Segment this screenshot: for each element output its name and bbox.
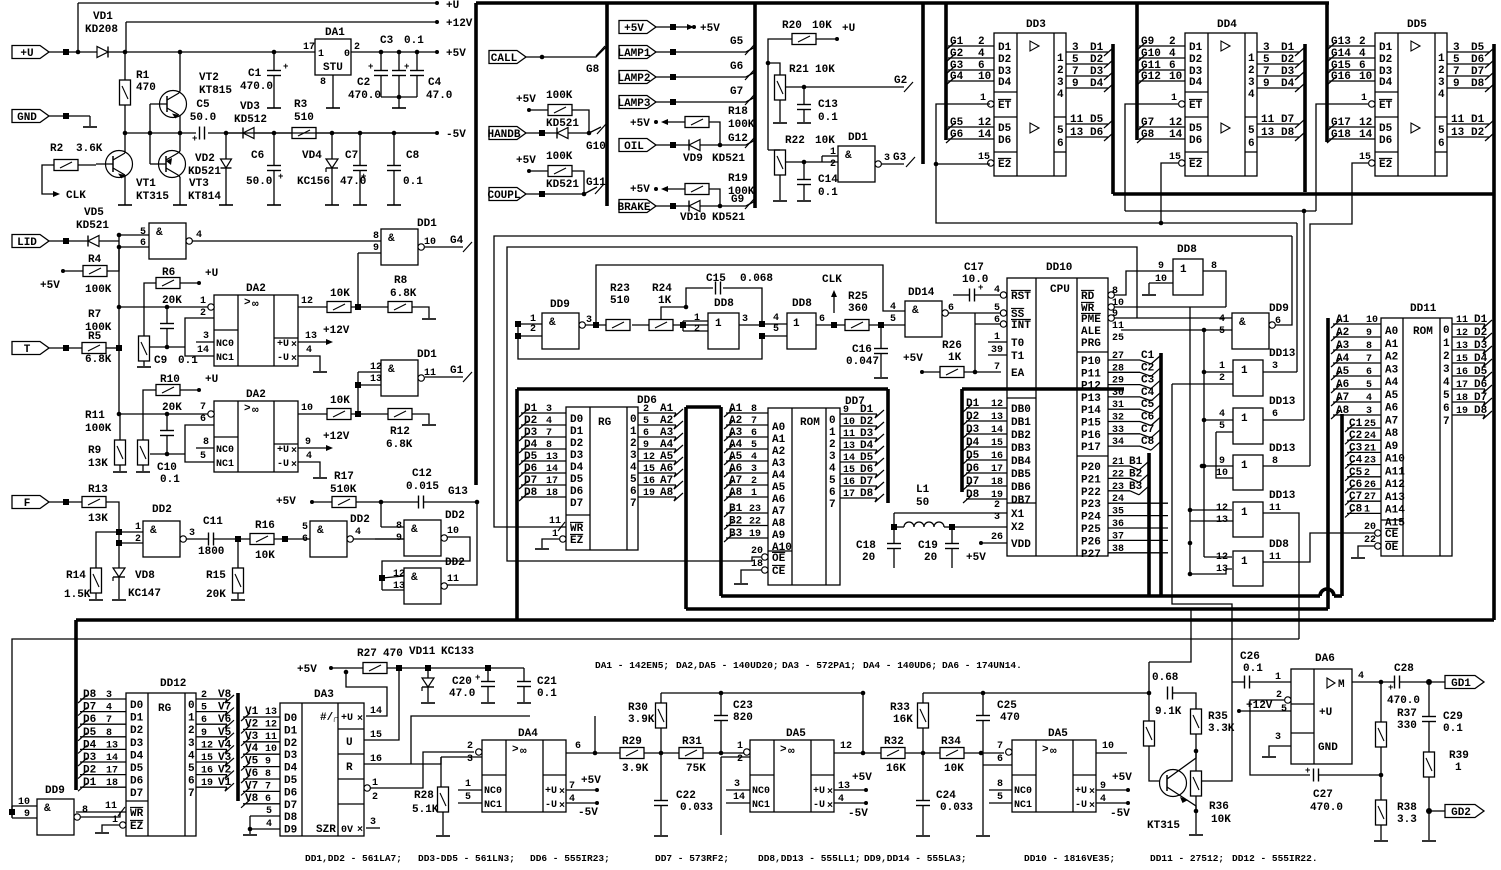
- wire RD to DD8.3: [1114, 271, 1173, 295]
- op-amp DA5.2: [1012, 740, 1096, 812]
- svg-text:5: 5: [773, 324, 779, 335]
- wire: [179, 52, 181, 91]
- resistor R29: [620, 748, 644, 759]
- bus V: [236, 693, 240, 801]
- wire: [351, 306, 388, 308]
- svg-text:D6: D6: [860, 464, 873, 476]
- svg-text:3: 3: [994, 512, 1000, 523]
- svg-text:1: 1: [318, 49, 324, 60]
- svg-text:6: 6: [1272, 409, 1278, 420]
- svg-text:D4: D4: [1474, 353, 1488, 365]
- svg-text:SZR: SZR: [316, 824, 336, 836]
- svg-text:GD1: GD1: [1451, 678, 1471, 690]
- svg-text:4: 4: [829, 463, 836, 475]
- wire: [526, 193, 584, 195]
- wire: [425, 246, 463, 248]
- svg-text:A4: A4: [660, 439, 674, 451]
- wire pin2: [1172, 383, 1233, 385]
- svg-text:×: ×: [827, 801, 833, 812]
- wire: [1319, 774, 1381, 776]
- svg-text:9.1K: 9.1K: [1155, 706, 1182, 718]
- svg-text:2: 2: [1359, 36, 1366, 48]
- svg-text:R7: R7: [88, 309, 101, 321]
- svg-text:1: 1: [829, 427, 836, 439]
- svg-text:R34: R34: [941, 736, 961, 748]
- svg-text:10: 10: [265, 744, 277, 755]
- svg-text:GND: GND: [17, 112, 37, 124]
- wire: [644, 752, 679, 754]
- gate DD13.3: [1233, 455, 1263, 490]
- wire: [834, 802, 866, 804]
- svg-text:G17: G17: [1331, 117, 1351, 129]
- wire ALE chain: [1121, 329, 1232, 331]
- gate DD1.4: [838, 146, 875, 182]
- svg-text:∩: ∩: [333, 715, 339, 726]
- svg-text:D2: D2: [524, 415, 537, 427]
- svg-text:0.033: 0.033: [940, 802, 973, 814]
- wire: [1232, 681, 1244, 683]
- svg-text:D3: D3: [1474, 340, 1488, 352]
- svg-text:7: 7: [1263, 66, 1270, 78]
- svg-text:11: 11: [1261, 114, 1275, 126]
- svg-text:C3: C3: [1141, 375, 1155, 387]
- svg-text:26: 26: [991, 532, 1003, 543]
- output D3 pin 7: [1257, 75, 1299, 77]
- svg-text:5: 5: [1438, 125, 1445, 137]
- wire: [49, 51, 97, 53]
- svg-text:1: 1: [1438, 53, 1445, 65]
- wire: [568, 132, 589, 134]
- resistor R7: [139, 336, 150, 361]
- svg-text:3: 3: [1438, 77, 1445, 89]
- svg-text:10K: 10K: [330, 288, 350, 300]
- wire DA2.2 pin7: [119, 413, 208, 415]
- svg-text:R1: R1: [136, 70, 150, 82]
- svg-text:+5V: +5V: [446, 48, 466, 60]
- wire: [572, 171, 584, 194]
- dac DA3: [280, 703, 364, 836]
- svg-text:11: 11: [447, 574, 459, 585]
- svg-text:A8: A8: [729, 487, 743, 499]
- wire: [660, 753, 662, 800]
- resistor R15: [233, 568, 244, 593]
- svg-text:G13: G13: [448, 486, 468, 498]
- svg-text:13K: 13K: [88, 513, 108, 525]
- svg-text:14: 14: [978, 129, 992, 141]
- wire: [1195, 796, 1197, 834]
- output D1 pin 3: [1257, 51, 1299, 53]
- wire: [63, 270, 83, 272]
- svg-text:DD8: DD8: [1177, 244, 1197, 256]
- svg-text:0.1: 0.1: [818, 187, 838, 199]
- svg-text:P14: P14: [1081, 405, 1101, 417]
- output A6: [638, 472, 676, 474]
- input G16 pin 10: [1329, 80, 1375, 82]
- svg-text:+: +: [475, 673, 480, 683]
- svg-text:+5V: +5V: [852, 772, 872, 784]
- wire: [125, 22, 127, 52]
- svg-text:G10: G10: [1141, 48, 1161, 60]
- wire DD9.5 out: [81, 812, 120, 817]
- svg-text:C5: C5: [196, 99, 210, 111]
- wire: [412, 307, 429, 318]
- input C8: [1347, 512, 1381, 514]
- wire: [144, 283, 156, 336]
- svg-text:∞: ∞: [520, 746, 527, 758]
- wire: [107, 247, 119, 271]
- svg-text:6: 6: [200, 414, 206, 425]
- input A1: [1333, 323, 1381, 325]
- svg-text:D7: D7: [284, 800, 297, 812]
- wire: [1149, 282, 1173, 284]
- svg-text:6: 6: [575, 741, 581, 752]
- svg-text:DA2: DA2: [246, 283, 266, 295]
- svg-text:>: >: [512, 744, 519, 756]
- svg-text:100K: 100K: [546, 90, 573, 102]
- resistor R14: [91, 568, 102, 593]
- svg-text:DD1: DD1: [417, 218, 437, 230]
- wire: [762, 323, 787, 325]
- svg-text:D3: D3: [1090, 66, 1104, 78]
- input G4 pin 10: [948, 80, 994, 82]
- input G11 pin 6: [1139, 69, 1185, 71]
- svg-text:PME: PME: [1081, 314, 1101, 326]
- svg-text:11: 11: [1070, 114, 1084, 126]
- svg-text:1: 1: [1361, 93, 1367, 104]
- svg-text:&: &: [549, 317, 556, 329]
- wire: [119, 531, 143, 533]
- svg-text:1: 1: [1455, 762, 1462, 774]
- wire: [656, 205, 689, 207]
- input G3 pin 6: [948, 69, 994, 71]
- output D3: [1452, 349, 1485, 351]
- capacitor C23: [713, 715, 715, 717]
- svg-text:13: 13: [106, 740, 118, 751]
- svg-text:R12: R12: [390, 426, 410, 438]
- svg-text:1.5K: 1.5K: [64, 589, 91, 601]
- svg-text:A2: A2: [660, 415, 673, 427]
- svg-text:DA6 - 174UN14.: DA6 - 174UN14.: [942, 660, 1022, 671]
- svg-text:LID: LID: [17, 237, 37, 249]
- connector flag T: [12, 342, 49, 355]
- connector flag BRAKE: [619, 200, 656, 213]
- counter DD8.2: [787, 313, 816, 349]
- wire: [78, 164, 96, 166]
- svg-text:ET: ET: [1379, 100, 1393, 112]
- svg-text:14: 14: [1359, 129, 1373, 141]
- capacitor C7: [352, 165, 354, 167]
- svg-text:R30: R30: [628, 702, 648, 714]
- wire: [1190, 520, 1233, 522]
- svg-text:CLK: CLK: [822, 274, 842, 286]
- svg-text:3.6K: 3.6K: [76, 143, 103, 155]
- svg-text:14: 14: [733, 792, 745, 803]
- svg-text:G6: G6: [730, 61, 743, 73]
- svg-text:A5: A5: [772, 482, 786, 494]
- svg-text:D5: D5: [524, 451, 538, 463]
- ground: [1358, 546, 1374, 557]
- wire: [1204, 556, 1232, 558]
- svg-text:470.0: 470.0: [240, 81, 273, 93]
- wire: [143, 390, 156, 440]
- bus addr DD6 out side: [684, 407, 688, 609]
- svg-text:C21: C21: [537, 676, 557, 688]
- svg-text:+5V: +5V: [276, 496, 296, 508]
- svg-text:C4: C4: [1141, 387, 1155, 399]
- svg-text:+12V: +12V: [1246, 700, 1273, 712]
- bus C right: [1340, 414, 1344, 596]
- diode VD1: [97, 47, 108, 58]
- input A7: [726, 484, 768, 486]
- svg-text:20K: 20K: [162, 295, 182, 307]
- wire ET net to DD13.2: [1303, 211, 1305, 420]
- resistor R9: [138, 440, 149, 465]
- svg-text:EA: EA: [1011, 368, 1025, 380]
- input A5: [1333, 375, 1381, 377]
- wire: [656, 51, 746, 53]
- svg-text:C2: C2: [357, 77, 370, 89]
- svg-text:10: 10: [1102, 741, 1114, 752]
- svg-text:#/: #/: [320, 712, 334, 724]
- svg-text:X1: X1: [1011, 509, 1025, 521]
- svg-text:D2: D2: [130, 725, 143, 737]
- svg-text:KD521: KD521: [76, 220, 109, 232]
- gate DD9.5: [37, 799, 74, 835]
- input D1: [521, 412, 566, 414]
- svg-text:ALE: ALE: [1081, 326, 1101, 338]
- svg-text:3: 3: [467, 754, 473, 765]
- svg-text:3: 3: [370, 817, 376, 828]
- wire ET net y211: [1125, 210, 1316, 212]
- svg-text:DD4: DD4: [1217, 19, 1237, 31]
- svg-text:×: ×: [291, 446, 297, 457]
- output D3: [840, 437, 877, 439]
- wire: [226, 132, 243, 134]
- svg-text:R8: R8: [394, 275, 408, 287]
- connector flag +5V: [619, 21, 656, 34]
- svg-text:C13: C13: [818, 99, 838, 111]
- svg-text:G1: G1: [950, 36, 964, 48]
- svg-text:12: 12: [840, 741, 852, 752]
- bus output DD5/D main: [1492, 44, 1496, 620]
- wire: [720, 757, 722, 835]
- svg-text:B1: B1: [1129, 456, 1143, 468]
- output D2 pin 13: [1447, 136, 1489, 138]
- svg-text:+U: +U: [205, 374, 218, 386]
- capacitor C20: [480, 681, 482, 683]
- svg-text:C23: C23: [733, 700, 753, 712]
- wire: [572, 110, 589, 133]
- svg-text:13: 13: [265, 707, 277, 718]
- svg-text:V2: V2: [218, 765, 231, 777]
- wire: [740, 752, 744, 754]
- diode VD9: [689, 140, 700, 151]
- svg-text:14: 14: [1169, 129, 1183, 141]
- svg-text:A5: A5: [1385, 390, 1399, 402]
- wire P13: [1108, 396, 1140, 398]
- svg-text:3: 3: [630, 450, 637, 462]
- ground: [773, 122, 787, 124]
- svg-text:12: 12: [1456, 328, 1468, 339]
- input G1 pin 2: [948, 45, 994, 47]
- svg-text:DD1: DD1: [417, 349, 437, 361]
- svg-text:D5: D5: [966, 450, 980, 462]
- svg-text:5: 5: [1281, 704, 1287, 715]
- wire: [1269, 746, 1291, 756]
- svg-text:A2: A2: [772, 446, 785, 458]
- gate DD9.2: [1232, 313, 1269, 349]
- svg-text:3: 3: [189, 528, 195, 539]
- capacitor C27: [1313, 769, 1315, 782]
- svg-text:R29: R29: [622, 736, 642, 748]
- svg-text:M: M: [1338, 679, 1345, 691]
- svg-text:4: 4: [546, 416, 552, 427]
- svg-text:6: 6: [188, 776, 195, 788]
- svg-text:16: 16: [1456, 367, 1468, 378]
- svg-text:24: 24: [1364, 431, 1376, 442]
- output V2: [196, 774, 227, 776]
- svg-text:510: 510: [294, 112, 314, 124]
- svg-text:A7: A7: [772, 506, 785, 518]
- wire DD2.2 out: [353, 538, 404, 540]
- capacitor C10: [159, 430, 161, 432]
- wire: [166, 307, 168, 323]
- svg-text:R38: R38: [1397, 802, 1417, 814]
- capacitor C25: [975, 715, 977, 717]
- svg-text:5.1K: 5.1K: [412, 804, 439, 816]
- ground: [89, 599, 103, 601]
- svg-text:G12: G12: [1141, 71, 1161, 83]
- svg-text:DD2: DD2: [350, 514, 370, 526]
- ground: [83, 126, 97, 128]
- input D4: [80, 748, 126, 750]
- svg-text:20: 20: [1364, 522, 1376, 533]
- svg-text:+U: +U: [842, 23, 855, 35]
- svg-text:7: 7: [546, 428, 552, 439]
- svg-text:4: 4: [196, 230, 202, 241]
- svg-text:+12V: +12V: [323, 325, 350, 337]
- ground: [243, 834, 257, 836]
- svg-text:GND: GND: [1318, 742, 1338, 754]
- svg-text:NC1: NC1: [216, 353, 234, 364]
- svg-text:D1: D1: [570, 426, 584, 438]
- amplifier DA6: [1291, 669, 1352, 764]
- wire: [768, 63, 780, 75]
- svg-text:11: 11: [265, 732, 277, 743]
- connector flag GD1: [1445, 676, 1484, 689]
- wire: [106, 347, 119, 349]
- wire: [682, 321, 684, 331]
- svg-text:C20: C20: [452, 676, 472, 688]
- svg-text:4: 4: [106, 703, 112, 714]
- svg-text:KT814: KT814: [188, 191, 221, 203]
- svg-text:1K: 1K: [948, 352, 962, 364]
- svg-text:G4: G4: [950, 71, 964, 83]
- rom DD11: [1381, 318, 1452, 556]
- resistor R35: [1191, 709, 1202, 734]
- svg-text:2: 2: [201, 690, 207, 701]
- wire: [9, 809, 15, 815]
- svg-text:DA3 - 572PA1;: DA3 - 572PA1;: [782, 660, 856, 671]
- svg-text:10K: 10K: [1211, 814, 1231, 826]
- wire: [77, 3, 79, 52]
- svg-text:A8: A8: [660, 487, 674, 499]
- wire DD8.4 out to CE: [1263, 533, 1376, 562]
- svg-text:4: 4: [1443, 377, 1450, 389]
- svg-text:1: 1: [980, 93, 986, 104]
- wire: [427, 668, 429, 678]
- svg-text:G6: G6: [950, 129, 963, 141]
- register DD6: [566, 407, 638, 550]
- svg-text:360: 360: [848, 303, 868, 315]
- svg-text:-5V: -5V: [446, 129, 466, 141]
- svg-text:C18: C18: [856, 540, 876, 552]
- output V7: [196, 711, 227, 713]
- svg-text:D3: D3: [570, 450, 584, 462]
- input B1: [726, 512, 768, 514]
- svg-text:P10: P10: [1081, 356, 1101, 368]
- wire P21: [1108, 477, 1130, 479]
- svg-text:D6: D6: [1189, 135, 1202, 147]
- wire: [709, 189, 720, 206]
- input G9 pin 2: [1139, 45, 1185, 47]
- output V6: [196, 723, 227, 725]
- wire: [632, 324, 649, 326]
- svg-text:-U: -U: [545, 800, 557, 811]
- input A4: [726, 448, 768, 450]
- wire: [1250, 700, 1310, 775]
- svg-text:A3: A3: [772, 458, 786, 470]
- svg-text:13K: 13K: [88, 458, 108, 470]
- svg-text:+5V: +5V: [630, 184, 650, 196]
- input A8: [1333, 414, 1381, 416]
- svg-text:R35: R35: [1208, 711, 1228, 723]
- resistor R36: [1191, 771, 1202, 796]
- svg-text:D0: D0: [570, 414, 583, 426]
- svg-text:V3: V3: [245, 731, 259, 743]
- svg-text:RD: RD: [1081, 291, 1095, 303]
- svg-text:C8: C8: [1141, 436, 1155, 448]
- svg-text:D3: D3: [130, 738, 144, 750]
- svg-text:470.0: 470.0: [1387, 695, 1420, 707]
- wire P15: [1108, 421, 1140, 423]
- wire: [1239, 710, 1291, 712]
- wire V1: [243, 716, 280, 718]
- svg-text:100K: 100K: [728, 119, 755, 131]
- wire: [298, 462, 320, 477]
- wire: [803, 87, 805, 104]
- svg-text:E2: E2: [1379, 159, 1392, 171]
- op-amp DA5.1: [750, 740, 834, 812]
- wire: [346, 672, 387, 716]
- svg-text:KD521: KD521: [188, 166, 221, 178]
- svg-text:C1: C1: [248, 68, 262, 80]
- svg-text:DB5: DB5: [1011, 469, 1031, 481]
- svg-text:D8: D8: [1474, 405, 1488, 417]
- svg-text:+5V: +5V: [516, 155, 536, 167]
- svg-text:D6: D6: [966, 463, 979, 475]
- svg-text:3.3: 3.3: [1397, 814, 1417, 826]
- svg-text:DD5: DD5: [1407, 19, 1427, 31]
- svg-text:4: 4: [306, 451, 312, 462]
- svg-text:1: 1: [630, 426, 637, 438]
- wire: [398, 52, 400, 70]
- svg-text:23: 23: [749, 504, 761, 515]
- output D4: [840, 449, 877, 451]
- bus border top: [476, 1, 1329, 5]
- svg-text:7: 7: [997, 741, 1003, 752]
- connector flag GND: [12, 110, 49, 123]
